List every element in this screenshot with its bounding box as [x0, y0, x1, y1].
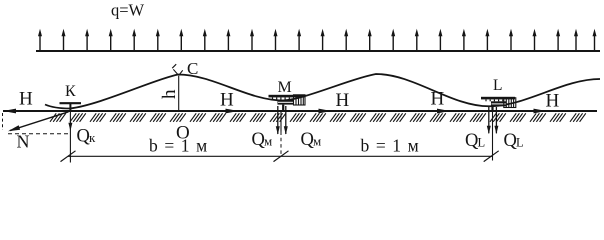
svg-text:К: К: [65, 83, 76, 100]
svg-text:H: H: [336, 90, 350, 111]
svg-text:L: L: [493, 77, 502, 94]
svg-text:M: M: [278, 79, 292, 96]
svg-text:H: H: [220, 90, 234, 111]
svg-text:N: N: [17, 132, 30, 152]
svg-text:C: C: [187, 59, 198, 78]
svg-text:м: м: [264, 133, 272, 148]
svg-text:L: L: [478, 135, 486, 149]
svg-text:к: к: [89, 130, 96, 145]
svg-text:L: L: [516, 135, 524, 149]
svg-text:H: H: [19, 89, 33, 110]
svg-text:H: H: [431, 89, 445, 110]
svg-text:H: H: [546, 91, 560, 112]
svg-text:b = 1 м: b = 1 м: [361, 136, 420, 156]
svg-text:h: h: [159, 89, 180, 99]
svg-text:b = 1 м: b = 1 м: [149, 136, 208, 156]
svg-text:q=W: q=W: [111, 1, 145, 20]
svg-text:м: м: [313, 133, 321, 148]
